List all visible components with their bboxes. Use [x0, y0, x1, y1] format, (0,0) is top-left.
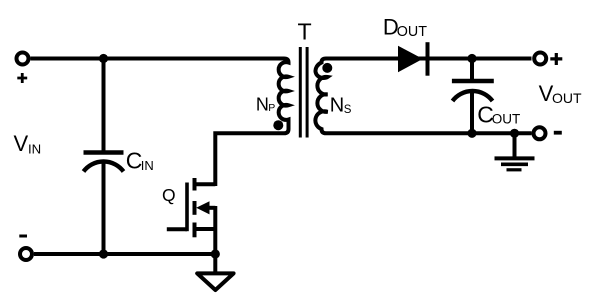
wire Cin lower branch [102, 164, 106, 255]
node junction source to ground [211, 249, 220, 258]
plus sign input [17, 73, 27, 83]
diode D_OUT [398, 42, 428, 75]
wire primary bottom to drain [215, 133, 284, 186]
svg-text:S: S [344, 104, 352, 116]
ground triangle [197, 273, 233, 290]
wire ground stub right [513, 133, 517, 158]
svg-text:IN: IN [141, 158, 154, 173]
terminal - input [20, 248, 32, 260]
capacitor C_IN [84, 153, 124, 172]
svg-text:N: N [330, 95, 344, 117]
node junction top of Cin [99, 54, 108, 63]
channel dash source [193, 223, 197, 238]
svg-text:N: N [256, 94, 269, 114]
channel dash drain [193, 178, 197, 191]
wire Cin upper branch [102, 59, 106, 151]
minus sign input [19, 235, 27, 238]
svg-text:Q: Q [162, 185, 176, 205]
wire bottom rail [34, 252, 215, 256]
node junction bottom of Cin [99, 249, 108, 258]
transformer secondary winding Ns [315, 59, 327, 134]
source down wire [213, 206, 217, 254]
terminal + output [534, 53, 546, 65]
minus sign output [554, 131, 562, 135]
wire top rail [31, 57, 285, 61]
terminal + input [17, 53, 29, 65]
node junction ground branch [510, 129, 519, 138]
svg-text:P: P [268, 102, 275, 114]
phase dot primary [273, 120, 283, 130]
svg-text:OUT: OUT [552, 90, 582, 106]
ground earth symbol [495, 158, 535, 169]
transformer primary winding Np [279, 59, 289, 134]
svg-text:T: T [298, 19, 312, 45]
wire mid rail secondary bottom to output minus [326, 131, 532, 135]
capacitor C_OUT [452, 59, 494, 134]
phase dot secondary [322, 63, 332, 73]
body arrow [196, 201, 209, 214]
gate lead [167, 227, 187, 231]
wire secondary top to output plus [326, 57, 532, 61]
node junction bottom of Cout [467, 129, 476, 138]
source lead [196, 227, 215, 231]
plus sign output [550, 53, 562, 65]
svg-text:OUT: OUT [492, 112, 521, 127]
svg-text:OUT: OUT [397, 24, 427, 40]
svg-text:V: V [14, 131, 29, 156]
drain lead [196, 182, 215, 186]
transformer core [300, 47, 307, 138]
node junction top of Cout [467, 54, 476, 63]
terminal - output [534, 127, 546, 139]
transistor Q MOSFET [167, 178, 216, 254]
channel dash body [193, 201, 197, 215]
gate bar [185, 183, 189, 232]
svg-text:IN: IN [28, 141, 41, 156]
wire ground stub [213, 254, 217, 272]
